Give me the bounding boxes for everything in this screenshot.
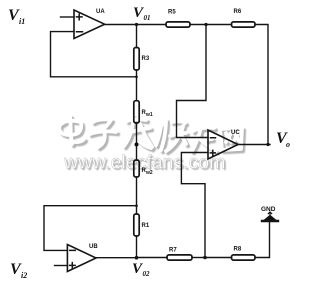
svg-text:UA: UA bbox=[96, 9, 105, 15]
wire UC non-inverting input path bbox=[181, 153, 208, 258]
svg-text:R7: R7 bbox=[169, 248, 177, 254]
resistor R7 bbox=[167, 248, 192, 261]
input label Vi1 bbox=[8, 7, 25, 26]
node Vo output junction bbox=[266, 143, 269, 146]
wire R8 to ground bbox=[255, 222, 270, 258]
wire junction B to R8 bbox=[205, 257, 232, 259]
resistor R6 bbox=[232, 9, 256, 27]
wire R1 to V02 bbox=[136, 236, 138, 258]
svg-text:R1: R1 bbox=[142, 223, 150, 229]
resistor Rw2 bbox=[134, 160, 153, 177]
wire R3 to Rw1 bbox=[136, 70, 138, 101]
wire V02 to R7 bbox=[137, 257, 168, 259]
node V01 bbox=[133, 5, 151, 26]
wire UB output bbox=[96, 257, 137, 259]
wire UA + input bbox=[61, 16, 75, 18]
wire V01 to R5 bbox=[137, 24, 167, 26]
op-amp UB bbox=[67, 244, 98, 272]
wire junction A to R6 bbox=[206, 24, 232, 26]
resistor R3 bbox=[134, 48, 150, 71]
wire Rw2 to R1 bbox=[136, 177, 138, 214]
svg-text:w2: w2 bbox=[145, 170, 153, 176]
svg-text:R8: R8 bbox=[234, 247, 242, 253]
svg-text:02: 02 bbox=[143, 270, 151, 278]
svg-text:w1: w1 bbox=[145, 112, 153, 118]
svg-text:UB: UB bbox=[89, 244, 98, 250]
svg-text:01: 01 bbox=[144, 14, 151, 22]
node junction A bbox=[204, 23, 207, 26]
wire R6 to feedback corner bbox=[255, 25, 268, 145]
wire UB feedback bbox=[44, 206, 137, 251]
wire UC inverting input path bbox=[177, 25, 209, 138]
ground GND bbox=[261, 206, 278, 221]
op-amp UA bbox=[74, 9, 105, 39]
wire UA feedback bbox=[51, 32, 137, 77]
watermark layer (decorative, drawn first, under circuit) bbox=[59, 116, 244, 175]
svg-text:UC: UC bbox=[231, 130, 240, 136]
svg-text:R5: R5 bbox=[168, 10, 176, 16]
node V02 bbox=[132, 256, 150, 278]
svg-text:i2: i2 bbox=[21, 271, 27, 280]
svg-text:R3: R3 bbox=[142, 56, 150, 62]
svg-text:o: o bbox=[286, 140, 290, 149]
output label Vo bbox=[276, 130, 290, 149]
resistor R5 bbox=[166, 10, 190, 28]
svg-text:R6: R6 bbox=[234, 9, 242, 15]
wire UC output bbox=[238, 144, 270, 146]
wire R5 to junction A bbox=[190, 24, 206, 26]
svg-text:i1: i1 bbox=[19, 17, 25, 26]
resistor Rw1 bbox=[134, 101, 153, 123]
wire UB + input bbox=[55, 265, 68, 267]
resistor R1 bbox=[134, 214, 150, 236]
node junction B bbox=[203, 256, 207, 260]
wire R7 to junction B bbox=[192, 257, 205, 259]
svg-text:GND: GND bbox=[261, 206, 276, 213]
resistor R8 bbox=[232, 247, 256, 261]
op-amp UC bbox=[208, 130, 240, 159]
node wiper junction bbox=[135, 143, 139, 147]
input label Vi2 bbox=[10, 261, 27, 280]
wire UA output bbox=[105, 24, 137, 26]
wire Rw1 to Rw2 bbox=[136, 123, 138, 160]
wire V01 to R3 bbox=[136, 25, 138, 48]
